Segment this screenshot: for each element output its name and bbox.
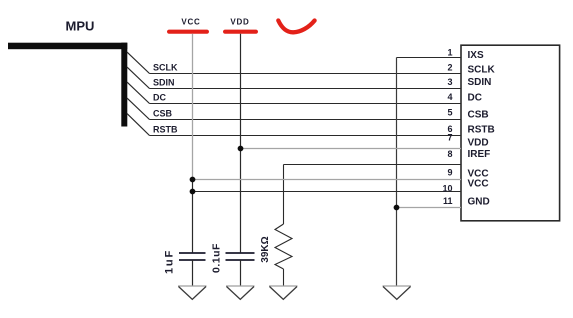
ground symbol under C1 xyxy=(178,285,207,287)
wire CSB to pin 5 xyxy=(150,119,462,121)
svg-text:2: 2 xyxy=(447,63,452,73)
capacitor C2 plates xyxy=(226,253,255,260)
wire VDD rail xyxy=(240,34,242,253)
wire pin 11 GND xyxy=(397,207,462,209)
junction VCC pin9 xyxy=(190,177,196,183)
wire C2 to ground xyxy=(240,260,242,286)
wire pin 8 IREF vertical xyxy=(283,165,285,225)
ground symbol under C2 xyxy=(226,285,255,287)
pin numbers xyxy=(442,48,452,207)
svg-text:DC: DC xyxy=(468,93,482,104)
red highlight curve xyxy=(278,21,314,33)
junction GND pin11 xyxy=(394,205,400,211)
svg-text:DC: DC xyxy=(153,93,166,103)
power VCC bar xyxy=(167,30,209,34)
svg-text:10: 10 xyxy=(442,183,452,193)
svg-text:5: 5 xyxy=(447,108,452,118)
IC U1 box xyxy=(461,45,560,221)
svg-text:CSB: CSB xyxy=(468,110,489,121)
wire VCC rail lower xyxy=(192,180,194,254)
svg-text:VCC: VCC xyxy=(181,18,200,27)
MPU bus bracket xyxy=(8,43,127,127)
svg-text:IXS: IXS xyxy=(468,50,484,61)
wire diagonal to SDIN xyxy=(127,67,150,89)
svg-text:VDD: VDD xyxy=(468,138,489,149)
svg-text:1: 1 xyxy=(447,48,452,58)
svg-text:MPU: MPU xyxy=(66,19,95,34)
svg-text:IREF: IREF xyxy=(468,149,491,160)
svg-text:RSTB: RSTB xyxy=(153,125,178,135)
wire C1 to ground xyxy=(192,260,194,286)
ground symbol under R1 xyxy=(269,285,298,287)
wire pin 1 to GND vertical xyxy=(396,58,398,287)
wire diagonal to CSB xyxy=(127,98,150,120)
svg-text:39KΩ: 39KΩ xyxy=(260,236,271,262)
svg-text:CSB: CSB xyxy=(153,109,173,119)
wire DC to pin 4 xyxy=(150,103,462,105)
svg-text:SDIN: SDIN xyxy=(468,77,492,88)
wire pin 7 VDD xyxy=(241,148,462,150)
svg-text:RSTB: RSTB xyxy=(468,125,495,136)
svg-text:GND: GND xyxy=(468,196,490,207)
wire RSTB to pin 6 xyxy=(150,135,462,137)
wire diagonal to DC xyxy=(127,82,150,104)
svg-text:11: 11 xyxy=(443,196,453,206)
svg-text:8: 8 xyxy=(447,149,452,159)
pin names xyxy=(468,50,496,207)
svg-text:SDIN: SDIN xyxy=(153,78,175,88)
wire R1 to ground xyxy=(283,269,285,286)
svg-text:4: 4 xyxy=(447,92,452,102)
resistor R1 zigzag xyxy=(275,224,292,269)
wire pin 9 VCC xyxy=(193,179,462,181)
power VDD bar xyxy=(223,30,258,34)
wire VCC rail upper xyxy=(192,34,194,180)
wire diagonal to SCLK xyxy=(127,52,150,74)
svg-text:SCLK: SCLK xyxy=(153,63,178,73)
junction VDD pin7 xyxy=(238,146,244,152)
wire SCLK to pin 2 xyxy=(150,73,462,75)
wire pin 10 VCC xyxy=(193,191,462,193)
svg-text:7: 7 xyxy=(447,133,452,143)
svg-text:3: 3 xyxy=(447,77,452,87)
capacitor C1 plates xyxy=(179,253,206,260)
wire pin 1 stub xyxy=(397,57,462,59)
wire pin 8 IREF horizontal xyxy=(284,164,462,166)
svg-text:0.1uF: 0.1uF xyxy=(211,243,223,273)
ground symbol right GND net xyxy=(383,285,412,287)
svg-text:9: 9 xyxy=(447,168,452,178)
wire diagonal to RSTB xyxy=(127,114,150,136)
svg-text:1uF: 1uF xyxy=(164,249,176,274)
svg-text:VCC: VCC xyxy=(468,179,489,190)
junction VCC pin10 xyxy=(190,189,196,195)
svg-text:VDD: VDD xyxy=(230,18,249,27)
wire SDIN to pin 3 xyxy=(150,88,462,90)
svg-text:SCLK: SCLK xyxy=(468,64,496,75)
